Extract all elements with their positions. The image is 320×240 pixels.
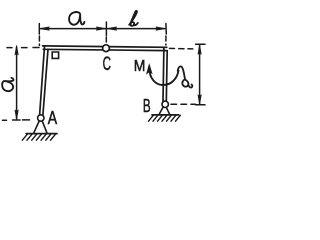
svg-text:A: A (48, 108, 57, 128)
svg-text:M: M (134, 58, 146, 75)
svg-text:B: B (143, 96, 151, 116)
svg-text:C: C (103, 53, 111, 75)
